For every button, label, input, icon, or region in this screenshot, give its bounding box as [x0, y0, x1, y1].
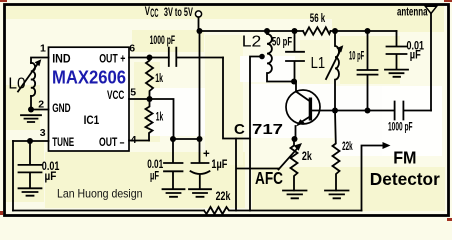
junction bypass 0.01uF [170, 136, 176, 142]
svg-text:C: C [234, 121, 245, 138]
junction base node / 10pF bottom [365, 108, 371, 114]
L0 arrowhead [35, 59, 42, 66]
svg-text:4: 4 [131, 134, 137, 146]
ground below 1uF [189, 189, 211, 197]
junction collector node [291, 79, 297, 85]
junction OUT+ node [147, 55, 153, 61]
FM output arrowhead [383, 142, 391, 149]
svg-text:VCC: VCC [107, 90, 124, 102]
transistor base bar [309, 98, 312, 121]
L2 tap wire [250, 57, 262, 211]
L1 arrowhead [337, 45, 344, 52]
inductor L2 tapped [267, 31, 296, 82]
capacitor 1000pF coupling [169, 48, 223, 66]
svg-text:L0: L0 [8, 76, 25, 93]
bottom wire left [13, 210, 204, 212]
inductor L1 (variable) [335, 31, 339, 111]
junction emitter node [292, 136, 298, 142]
FM detector output wire [362, 146, 385, 211]
collector wire [296, 82, 310, 102]
resistor R 1k (OUT+ pullup) [146, 61, 153, 100]
svg-text:6: 6 [129, 43, 135, 55]
svg-text:50 pF: 50 pF [272, 37, 292, 49]
transistor Q1 C717 circle [286, 90, 320, 124]
svg-text:IND: IND [52, 54, 70, 66]
junction VCC pin5 node [147, 96, 153, 102]
base wire [312, 110, 395, 112]
capacitor 0.01uF antenna [387, 31, 407, 69]
wire pin1 to L0 [31, 58, 49, 64]
svg-text:MAX2606: MAX2606 [52, 67, 126, 88]
junction pin2 GND node [28, 107, 34, 113]
capacitor C 1uF electrolytic [191, 139, 210, 189]
VCC rail [199, 30, 397, 32]
svg-text:antenna: antenna [397, 7, 428, 19]
svg-text:µF: µF [150, 171, 159, 183]
wire VCC drop to bypass [199, 31, 201, 139]
resistor R 1k (OUT- pullup) [146, 99, 153, 141]
svg-text:L1: L1 [311, 55, 326, 72]
wire pin6 OUT+ [129, 57, 169, 59]
capacitor 10pF [358, 31, 378, 111]
svg-text:1: 1 [40, 43, 46, 55]
wire L0 to pin2 [30, 96, 32, 110]
svg-text:2: 2 [38, 99, 44, 111]
junction rail / 50pF [292, 28, 298, 34]
ground below antenna cap [385, 70, 408, 77]
capacitor 0.01uF at TUNE [19, 141, 42, 188]
svg-text:GND: GND [52, 103, 70, 115]
ground below 2k [283, 191, 307, 199]
wire pin4 OUT- [129, 140, 149, 142]
wire pin5 VCC [129, 99, 174, 139]
svg-text:OUT +: OUT + [99, 54, 125, 66]
bottom wire right [250, 210, 362, 212]
red page artifacts at corners [0, 0, 7, 2]
svg-text:µF: µF [410, 49, 421, 61]
junction VCC rail / supply drop [197, 28, 203, 34]
svg-text:1000 pF: 1000 pF [150, 35, 176, 47]
wire riser A to AFC wiper [236, 139, 279, 211]
svg-text:1k: 1k [155, 73, 163, 85]
svg-text:56 k: 56 k [310, 13, 326, 25]
capacitor 50pF [286, 31, 304, 82]
svg-text:3: 3 [40, 127, 46, 139]
svg-text:22k: 22k [216, 191, 231, 203]
resistor 56k [303, 27, 331, 34]
resistor 22k bias [333, 111, 340, 191]
AFC arrowhead [294, 143, 302, 151]
svg-text:1µF: 1µF [211, 159, 227, 171]
svg-text:µF: µF [45, 171, 57, 183]
emitter arrowhead [296, 119, 305, 126]
junction TUNE node [27, 138, 33, 144]
capacitor 0.01uF bypass [164, 139, 183, 189]
junction rail / L1 top [332, 28, 338, 34]
junction base node / L1 bottom [332, 108, 338, 114]
ground below 0.01uF bypass [163, 189, 185, 197]
ground below pin2 [21, 115, 41, 122]
svg-text:1000 pF: 1000 pF [388, 122, 413, 134]
L0 arrow [18, 62, 39, 92]
svg-text:IC1: IC1 [84, 115, 100, 127]
svg-text:FM: FM [393, 148, 416, 168]
svg-text:OUT –: OUT – [99, 137, 125, 149]
emitter wire with arrow [296, 117, 311, 140]
svg-text:717: 717 [252, 121, 283, 138]
junction rail / L2 top [264, 28, 270, 34]
wire pin3 TUNE to left [13, 140, 49, 142]
wire 1000pF down link [223, 58, 250, 139]
wire bypass rail [173, 138, 200, 140]
antenna lead [430, 14, 432, 111]
svg-text:2k: 2k [302, 151, 312, 163]
svg-text:0.01: 0.01 [147, 159, 163, 171]
svg-text:AFC: AFC [255, 168, 283, 188]
junction L2 tap [259, 54, 265, 60]
svg-text:+: + [203, 149, 210, 161]
svg-text:CC: CC [150, 8, 158, 20]
svg-text:10 pF: 10 pF [349, 51, 364, 63]
svg-text:Lan Huong design: Lan Huong design [57, 187, 143, 200]
left drop wire [12, 141, 14, 211]
IC1 box MAX2606 [49, 47, 130, 151]
svg-text:5: 5 [130, 86, 136, 98]
antenna symbol [425, 6, 436, 13]
svg-text:1k: 1k [156, 112, 164, 124]
resistor 22k bottom [204, 207, 250, 214]
VCC terminal [195, 11, 201, 17]
svg-text:22k: 22k [342, 141, 353, 153]
AFC wiper arrow [279, 147, 300, 170]
svg-text:L2: L2 [242, 33, 262, 50]
ground below TUNE cap [19, 188, 42, 195]
capacitor 1000pF antenna [395, 102, 431, 120]
svg-text:TUNE: TUNE [52, 137, 74, 149]
ground below 22k [325, 191, 349, 199]
wire pin2 [31, 109, 49, 111]
svg-text:3V to 5V: 3V to 5V [164, 7, 193, 19]
svg-text:Detector: Detector [370, 169, 440, 189]
resistor 2k AFC pot [291, 139, 298, 190]
junction rail / 10pF top [365, 28, 371, 34]
inductor L0 (variable) [31, 63, 35, 96]
L1 arrow [326, 48, 342, 79]
junction bypass 1uF [197, 136, 203, 142]
